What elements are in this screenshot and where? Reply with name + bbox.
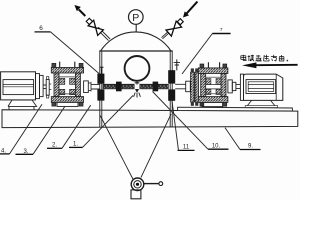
left coupling cap bolt nubs xyxy=(47,77,49,80)
svg-text:10.: 10. xyxy=(212,143,221,149)
left housing columns xyxy=(54,73,59,97)
left motor base xyxy=(8,100,37,106)
right rod clamp xyxy=(153,82,159,92)
left valve (bowtie) xyxy=(88,20,103,35)
shaft out of right wall xyxy=(175,84,186,89)
svg-text:11: 11 xyxy=(183,145,190,151)
pump base xyxy=(131,190,141,199)
gauge stem xyxy=(135,25,137,32)
pump handle xyxy=(144,183,159,185)
left wall gland packing upper xyxy=(97,74,104,84)
disc holder stem xyxy=(135,81,140,85)
right wall gland packing upper xyxy=(168,70,175,83)
right housing bearings xyxy=(206,79,211,85)
right inlet arrow xyxy=(186,2,197,14)
chamber left wall xyxy=(100,51,102,127)
left housing inner rails xyxy=(59,77,75,94)
left vent pipe xyxy=(97,27,110,40)
feed direction caption 电极进给方向 xyxy=(241,55,288,62)
left motor shaft xyxy=(43,85,46,89)
left motor stripe xyxy=(3,85,34,87)
left wall gland packing lower xyxy=(97,89,104,100)
right housing inner rails xyxy=(206,77,221,94)
pressure gauge P xyxy=(129,10,144,25)
right top flange bolts xyxy=(200,64,204,68)
left motor end bell xyxy=(36,74,40,99)
funnel right line xyxy=(141,114,171,177)
right housing base block xyxy=(202,102,223,106)
svg-text:P: P xyxy=(132,12,139,24)
feed-through bolts xyxy=(191,68,194,72)
left bearing housing bottom flange xyxy=(51,97,83,103)
svg-text:9.: 9. xyxy=(248,144,253,150)
svg-text:7: 7 xyxy=(220,27,223,33)
right housing columns xyxy=(201,74,206,97)
svg-text:6: 6 xyxy=(39,25,43,32)
feed direction arrow xyxy=(255,64,298,66)
base plate xyxy=(2,110,298,128)
svg-text:1.: 1. xyxy=(73,142,78,148)
right vent pipe xyxy=(162,30,172,39)
workpiece disc xyxy=(125,56,150,81)
right motor end cap xyxy=(240,74,243,100)
right valve (bowtie) xyxy=(166,21,182,36)
funnel left line xyxy=(100,116,133,181)
right bottom flange bolts xyxy=(200,102,204,106)
left motor window xyxy=(3,80,34,95)
left bearing housing top flange xyxy=(51,67,83,73)
right bearing housing bottom flange xyxy=(198,97,228,103)
right coupling block xyxy=(186,81,191,92)
electrode rod right segment xyxy=(140,84,169,89)
right housing shaft gap xyxy=(206,84,221,89)
right wall gland packing lower xyxy=(168,89,175,100)
left valve stem diamond xyxy=(86,18,92,24)
feed-through flange plates xyxy=(191,72,195,102)
left rod clamp xyxy=(116,82,122,92)
pump body xyxy=(131,178,144,191)
left outlet arrow xyxy=(79,10,86,17)
chamber right wall xyxy=(170,51,172,127)
right bearing housing top flange xyxy=(198,68,228,74)
left motor body xyxy=(1,72,36,100)
shaft to right motor xyxy=(236,85,241,89)
right motor base xyxy=(247,100,274,105)
left coupling step block xyxy=(84,81,89,93)
right coupling step block xyxy=(228,80,232,93)
bottom flange bolts xyxy=(52,102,56,106)
right vent cross xyxy=(176,59,178,70)
right motor window xyxy=(246,80,276,94)
left gland stud xyxy=(101,67,103,73)
left housing bearings xyxy=(59,78,65,84)
left housing base block xyxy=(57,102,78,106)
spark gap brush xyxy=(135,89,139,93)
right motor body xyxy=(244,74,283,100)
left coupling end cap xyxy=(46,79,49,95)
shaft into chamber xyxy=(91,84,100,89)
dome xyxy=(101,32,172,51)
top flange bolts xyxy=(52,63,56,67)
chamber top rim xyxy=(99,50,172,52)
electrode rod left segment xyxy=(103,84,134,89)
right motor sub-plate xyxy=(178,107,293,111)
right valve stem diamond xyxy=(177,19,183,25)
